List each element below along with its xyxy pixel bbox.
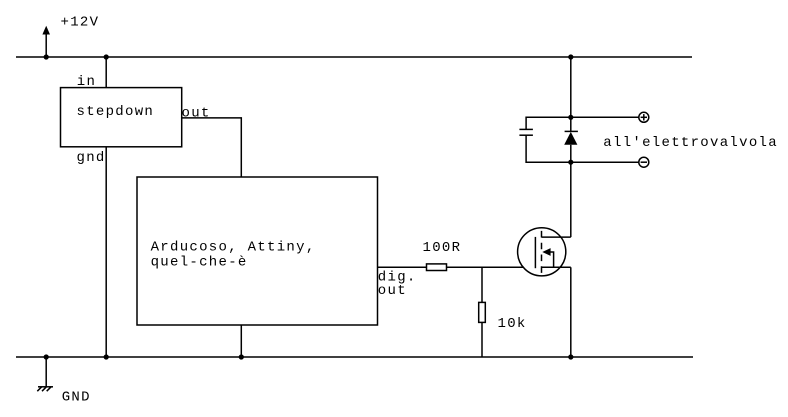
MCU U2 box Arducoso (137, 177, 378, 325)
pin label out (378, 283, 407, 299)
wire: drain up to flyback node (570, 162, 572, 237)
wire: top rail down to valve + node (570, 57, 572, 117)
wire: stepdown out pin to MCU box top (182, 118, 242, 177)
value label Arducoso, Attiny, (151, 240, 316, 256)
net label GND (62, 390, 91, 406)
resistor R1 100R body (427, 264, 447, 271)
node junction dot valve - node (568, 160, 573, 165)
node label +12V (61, 15, 100, 31)
svg-text:Arducoso, Attiny,: Arducoso, Attiny, (151, 240, 316, 256)
svg-text:out: out (378, 283, 407, 299)
diode D1 flyback: anode triangle (564, 132, 577, 145)
power symbol +12V arrow (42, 26, 50, 57)
wire: + node to plus terminal (571, 116, 639, 118)
wire: top rail to stepdown in pin (105, 57, 107, 88)
diode D1 flyback: cathode bar (565, 130, 578, 132)
wire: - node to minus terminal (571, 161, 639, 163)
node junction dot stepdown gnd on bottom rail (104, 354, 109, 359)
transistor Q1 gate bar (534, 237, 536, 268)
node junction dot MOSFET source on bottom rail (568, 354, 573, 359)
node junction dot stepdown input on top rail (104, 54, 109, 59)
transistor Q1 bulk arrow (542, 248, 553, 267)
value label 100R (423, 240, 462, 256)
svg-text:quel-che-è: quel-che-è (151, 254, 248, 270)
node junction dot at +12V arrow on top rail (44, 54, 49, 59)
svg-text:10k: 10k (498, 316, 527, 332)
svg-text:gnd: gnd (77, 150, 106, 166)
transistor Q1 drain lead (542, 236, 571, 238)
pin label dig. (378, 270, 417, 286)
wire: stepdown gnd pin down to ground rail (105, 147, 107, 357)
ground symbol earth (37, 357, 53, 391)
pin label out (182, 106, 211, 122)
pin label gnd (77, 150, 106, 166)
svg-text:all'elettrovalvola: all'elettrovalvola (603, 135, 778, 151)
value label quel-che-e (151, 254, 248, 270)
value label 10k (498, 316, 527, 332)
svg-text:in: in (77, 74, 96, 90)
terminal plus circle (639, 112, 649, 122)
net label all'elettrovalvola (603, 135, 778, 151)
transistor Q1 channel dashed line (541, 231, 543, 273)
node junction dot MOSFET branch on top rail (568, 54, 573, 59)
wire: +12V top supply rail (16, 56, 692, 58)
wire: diode cathode stub (570, 117, 572, 131)
transistor Q1 MOSFET body circle (518, 228, 566, 276)
wire: gate node down to 10k pulldown (481, 267, 483, 357)
regulator U1 stepdown box (61, 88, 182, 147)
node junction dot MCU gnd on bottom rail (239, 354, 244, 359)
svg-text:100R: 100R (423, 240, 462, 256)
node junction dot valve + node (568, 115, 573, 120)
resistor R2 10k body (479, 302, 486, 322)
terminal minus circle (639, 157, 649, 167)
svg-text:+12V: +12V (61, 15, 100, 31)
capacitor C1 plates (519, 129, 533, 135)
pin label in (77, 74, 96, 90)
node junction dot ground symbol on bottom rail (44, 354, 49, 359)
wire: snubber capacitor branch (526, 117, 571, 162)
wire: diode anode stub (570, 145, 572, 162)
wire: source down to ground rail (570, 267, 572, 357)
wire: dig. out pin through gate resistor to MOSFET gate (378, 266, 536, 268)
svg-text:GND: GND (62, 390, 91, 406)
wire: MCU box bottom to ground rail (240, 325, 242, 357)
transistor Q1 source lead (542, 266, 571, 268)
value label stepdown (77, 104, 155, 120)
svg-text:out: out (182, 106, 211, 122)
svg-text:stepdown: stepdown (77, 104, 155, 120)
wire: GND bottom rail (16, 356, 693, 358)
